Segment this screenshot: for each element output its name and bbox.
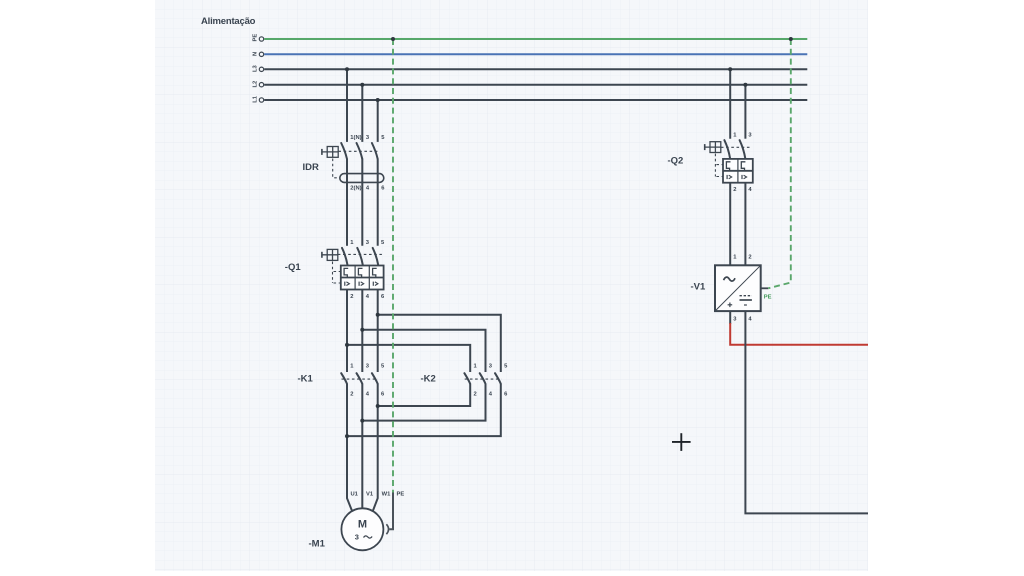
svg-text:U1: U1	[351, 492, 359, 498]
contactor K2 pole 2 blade	[480, 373, 486, 383]
motor M1 circle	[341, 508, 383, 550]
junction K2 feed pole 1	[345, 343, 349, 347]
svg-text:2: 2	[474, 391, 477, 397]
svg-text:-K2: -K2	[421, 373, 436, 384]
svg-text:L2: L2	[253, 81, 259, 88]
wire L1 rail	[264, 99, 807, 101]
junction K2 feed pole 3	[376, 313, 380, 317]
canvas background	[155, 0, 868, 571]
svg-text:L3: L3	[253, 64, 259, 72]
wire feed K2 pin 1 from Q1-K1 pole 1	[347, 345, 470, 372]
motor PE frame arc	[386, 524, 388, 534]
wire Q2 to V1 pin 1	[729, 183, 731, 266]
V1 minus sign	[744, 304, 747, 306]
wire V1 pin 3 stub	[729, 311, 731, 324]
wire L3 drop to IDR pole 1	[346, 69, 348, 142]
RCD IDR toroid (stadium)	[340, 174, 384, 183]
svg-text:2: 2	[748, 255, 751, 261]
svg-text:-M1: -M1	[309, 539, 326, 550]
breaker Q1 pole 3 blade	[373, 248, 379, 266]
junction L2 left tap	[360, 83, 364, 87]
svg-text:2: 2	[733, 187, 736, 193]
RCD IDR pole 2 blade	[357, 143, 363, 159]
wire L2 drop to Q2 pole 2	[744, 85, 746, 139]
Q1 thermal element 2	[358, 268, 362, 277]
junction K2 return pole 3	[376, 404, 380, 408]
wire DC negative from V1 pin 4	[745, 311, 868, 513]
wire PE rail	[264, 38, 807, 40]
motor 3~	[355, 533, 372, 542]
wire IDR to Q1 pole 2	[361, 159, 363, 246]
breaker Q1 trip-unit box	[341, 266, 384, 290]
breaker Q1 actuator dashed link	[332, 262, 334, 284]
Q1 thermal element 3	[373, 268, 377, 277]
breaker Q2 test button	[705, 142, 721, 153]
svg-text:PE: PE	[764, 294, 772, 300]
svg-text:-Q1: -Q1	[285, 262, 302, 273]
RCD IDR pole 3 blade	[372, 143, 378, 159]
junction L1 left tap	[376, 98, 380, 102]
breaker Q2 blade link dashed	[721, 146, 750, 148]
wire Q2 to V1 pin 2	[744, 183, 746, 266]
terminal N	[253, 52, 264, 57]
breaker Q1 pole 2 blade	[357, 248, 363, 266]
Q2 thermal element 1	[726, 162, 730, 171]
wire L2 drop to IDR pole 2	[361, 85, 363, 142]
terminal L3	[253, 64, 264, 72]
svg-text:3: 3	[355, 533, 359, 542]
svg-text:M: M	[358, 519, 367, 531]
wire K2 pin 4 return to pole 2	[362, 384, 485, 421]
Q1 magnetic element 3	[373, 282, 378, 286]
breaker Q2 trip-unit box	[723, 159, 753, 183]
svg-text:-V1: -V1	[691, 282, 707, 293]
wire N rail	[264, 53, 807, 55]
junction L2 right tap	[743, 83, 747, 87]
V1 DC symbol	[740, 296, 752, 300]
wire motor PE solid	[389, 493, 393, 530]
contactor K1 pole 1 blade	[341, 373, 347, 383]
contactor K1 pole 3 blade	[372, 373, 378, 383]
wire IDR to Q1 pole 1	[346, 159, 348, 246]
wire K1 pole 2 to motor V1	[361, 384, 363, 509]
wire L3 drop to Q2 pole 1	[729, 69, 731, 138]
svg-text:2(N): 2(N)	[350, 186, 361, 192]
Q2 magnetic element 1	[727, 175, 732, 179]
junction PE left dashed tap	[391, 37, 395, 41]
breaker Q2 pole 1 blade	[724, 140, 730, 158]
contactor K2 pole 3 blade	[495, 373, 501, 383]
Q1 magnetic element 2	[359, 282, 364, 286]
wire Q1 to K1 pole 1	[346, 290, 348, 373]
mouse crosshair	[672, 433, 691, 451]
svg-text:2: 2	[350, 294, 353, 300]
wire PE dashed to V1	[768, 39, 791, 288]
wire L1 drop to IDR pole 3	[377, 100, 379, 142]
wire DC positive (red)	[730, 323, 868, 345]
contactor K2 pole 1 blade	[464, 373, 470, 383]
wire K1 pole 3 to motor W1	[373, 384, 378, 511]
Q2 thermal element 2	[741, 162, 745, 171]
breaker Q2 actuator dashed link	[714, 154, 716, 177]
power supply V1 box	[715, 265, 761, 311]
wire L3 rail	[264, 68, 807, 70]
V1 plus sign	[728, 303, 733, 308]
wire feed K2 pin 5 from Q1-K1 pole 3	[378, 315, 501, 372]
svg-text:IDR: IDR	[303, 162, 320, 173]
svg-text:-Q2: -Q2	[668, 156, 684, 167]
wire Q1 to K1 pole 2	[361, 290, 363, 373]
RCD IDR pole 1 blade	[341, 143, 347, 159]
contactor K1 pole 2 blade	[357, 373, 363, 383]
wire IDR to Q1 pole 3	[377, 159, 379, 246]
svg-text:Alimentação: Alimentação	[201, 16, 256, 27]
svg-text:PE: PE	[397, 492, 405, 498]
V1 AC sine symbol	[724, 277, 735, 281]
svg-text:PE: PE	[253, 34, 259, 42]
svg-text:L1: L1	[253, 95, 259, 103]
junction L3 left tap	[345, 67, 349, 71]
wire K2 pin 2 return to pole 3	[378, 384, 471, 406]
Q2 magnetic element 2	[742, 175, 747, 179]
contactor K2 blade link dashed	[465, 378, 502, 380]
breaker Q1 test button	[322, 249, 338, 260]
terminal L2	[253, 81, 264, 88]
svg-text:1(N): 1(N)	[350, 135, 361, 141]
breaker Q1 blade link dashed	[338, 253, 382, 255]
RCD IDR actuator dashed link to toroid	[333, 159, 339, 178]
wire Q1 to K1 pole 3	[377, 290, 379, 373]
wire L2 rail	[264, 84, 807, 86]
breaker Q2 pole 2 blade	[740, 140, 746, 158]
svg-text:W1: W1	[382, 492, 391, 498]
wire K1 pole 1 to motor U1	[347, 384, 352, 511]
junction L3 right tap	[728, 67, 732, 71]
junction K2 feed pole 2	[360, 328, 364, 332]
svg-text:-K1: -K1	[298, 373, 314, 384]
terminal L1	[253, 95, 264, 103]
wire feed K2 pin 3 from Q1-K1 pole 2	[362, 330, 485, 372]
svg-text:N: N	[253, 52, 259, 56]
Q1 magnetic element 1	[345, 282, 350, 286]
terminal PE	[253, 34, 264, 42]
Q1 thermal element 1	[344, 268, 348, 277]
junction K2 return pole 1	[345, 434, 349, 438]
RCD IDR test button	[322, 147, 338, 158]
svg-text:V1: V1	[366, 492, 374, 498]
junction K2 return pole 2	[360, 419, 364, 423]
wire PE dashed drop to motor	[392, 39, 394, 493]
V1 PE stub	[761, 287, 769, 289]
svg-text:2: 2	[350, 391, 353, 397]
contactor K1 blade link dashed	[342, 378, 379, 380]
junction PE right dashed tap	[789, 37, 793, 41]
wire K2 pin 6 return to pole 1	[347, 384, 501, 437]
breaker Q1 pole 1 blade	[342, 248, 348, 266]
RCD IDR blade link dashed	[338, 150, 379, 152]
